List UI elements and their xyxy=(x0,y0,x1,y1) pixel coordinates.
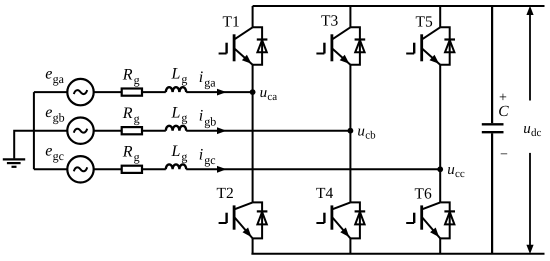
AC source e_ga label xyxy=(45,65,64,86)
resistor R_g row gb label xyxy=(122,105,140,125)
wire: bus to source gb xyxy=(34,130,67,132)
node u_ca label xyxy=(260,85,278,103)
transistor T4: emitter arrowhead xyxy=(340,228,349,238)
svg-text:u: u xyxy=(447,162,455,178)
transistor T1: gate bar xyxy=(225,43,227,54)
wire: diode branch jogs of T1 xyxy=(253,27,263,65)
u_dc label xyxy=(523,121,541,139)
transistor T1: emitter arrowhead xyxy=(242,55,252,64)
wire: resistor to inductor row ga xyxy=(142,91,166,93)
wire: resistor to inductor row gb xyxy=(142,130,166,132)
node u_cb junction dot xyxy=(348,128,354,134)
svg-text:T3: T3 xyxy=(321,13,338,30)
transistor T5: main bar xyxy=(420,34,423,61)
transistor T2: gate bar xyxy=(225,213,227,223)
wire: diode branch jogs of T6 xyxy=(440,202,450,238)
wire: phase leg 3 vertical segments xyxy=(439,6,441,254)
wire: diode branch jogs of T4 xyxy=(350,202,360,238)
current i_gb label xyxy=(199,108,216,129)
AC source e_ga sine symbol xyxy=(74,90,87,94)
svg-text:T4: T4 xyxy=(316,185,333,202)
wire: capacitor branch bottom xyxy=(491,133,493,253)
wire: diode branch jogs of T5 xyxy=(440,27,450,65)
anti-parallel diode of T2: triangle xyxy=(257,212,266,224)
transistor T5: emitter arrowhead xyxy=(430,55,440,64)
svg-text:i: i xyxy=(199,146,203,163)
anti-parallel diode of T1: cathode bar xyxy=(257,38,268,40)
svg-text:T2: T2 xyxy=(217,185,234,202)
resistor R_g row gc label xyxy=(122,144,140,164)
transistor T5: emitter lead xyxy=(422,48,441,65)
transistor T2: gate lead xyxy=(219,222,227,224)
transistor T6: emitter lead xyxy=(422,217,441,239)
svg-text:C: C xyxy=(498,103,509,120)
AC source e_ga circle xyxy=(67,79,93,105)
AC source e_gc circle xyxy=(67,156,93,182)
svg-text:ga: ga xyxy=(53,72,65,86)
u_dc measurement arrow upper segment xyxy=(526,6,533,101)
transistor T6: main bar xyxy=(420,205,423,229)
transistor T4: emitter lead xyxy=(332,217,351,239)
anti-parallel diode of T4: triangle xyxy=(355,212,364,224)
svg-text:gb: gb xyxy=(204,114,216,128)
resistor R_g row ga xyxy=(122,89,142,96)
svg-text:cc: cc xyxy=(455,168,465,180)
node u_cc junction dot xyxy=(437,166,443,172)
transistor T6: gate bar xyxy=(413,213,415,223)
current arrow i_gb xyxy=(217,127,227,134)
anti-parallel diode of T4: cathode bar xyxy=(355,210,366,212)
svg-text:g: g xyxy=(134,150,140,164)
svg-text:g: g xyxy=(181,111,187,125)
svg-text:gc: gc xyxy=(53,149,64,163)
svg-text:i: i xyxy=(199,69,203,86)
capacitor C plates xyxy=(482,124,504,132)
transistor T1: gate lead xyxy=(219,53,227,55)
svg-text:ca: ca xyxy=(267,91,277,103)
transistor T2: collector lead xyxy=(234,202,253,209)
resistor R_g row ga label xyxy=(122,67,140,87)
svg-text:g: g xyxy=(134,112,140,126)
svg-text:gb: gb xyxy=(53,111,65,125)
transistor T1: main bar xyxy=(233,34,236,61)
svg-text:T1: T1 xyxy=(223,13,240,30)
svg-text:e: e xyxy=(45,65,52,82)
svg-text:gc: gc xyxy=(204,153,215,167)
svg-text:g: g xyxy=(181,72,187,86)
anti-parallel diode of T5: triangle xyxy=(445,40,454,52)
current i_ga label xyxy=(199,69,216,90)
wire: bus to source ga xyxy=(34,91,67,93)
wire: source to resistor row gb xyxy=(94,130,122,132)
transistor T1: collector lead xyxy=(234,27,253,39)
wire: inductor to leg row gc xyxy=(186,168,440,170)
svg-text:u: u xyxy=(357,124,365,140)
transistor T4: main bar xyxy=(330,205,333,229)
AC source e_gc sine symbol xyxy=(74,167,87,171)
wire: source to resistor row gc xyxy=(94,168,122,170)
svg-text:dc: dc xyxy=(531,127,542,139)
node u_cc label xyxy=(447,162,465,180)
AC source e_gb label xyxy=(45,104,64,125)
transistor T3: emitter arrowhead xyxy=(340,55,350,64)
svg-text:R: R xyxy=(122,144,133,161)
svg-text:cb: cb xyxy=(365,130,376,142)
transistor T2: emitter arrowhead xyxy=(243,228,252,238)
anti-parallel diode of T2: cathode bar xyxy=(257,210,268,212)
svg-text:i: i xyxy=(199,108,203,125)
transistor T5: gate bar xyxy=(413,43,415,54)
ground xyxy=(3,159,25,166)
svg-text:u: u xyxy=(523,121,531,137)
svg-text:u: u xyxy=(260,85,268,101)
wire: inductor to leg row ga xyxy=(186,91,252,93)
anti-parallel diode of T1: triangle xyxy=(257,40,266,52)
transistor T3: gate lead xyxy=(316,53,324,55)
node u_cb label xyxy=(357,124,376,142)
svg-text:g: g xyxy=(134,73,140,87)
current arrow i_ga xyxy=(217,89,227,96)
inductor L_g row ga xyxy=(166,87,186,92)
svg-text:L: L xyxy=(171,143,181,160)
AC source e_gb sine symbol xyxy=(74,129,87,133)
transistor T6: emitter arrowhead xyxy=(430,228,439,238)
transistor T4: gate lead xyxy=(316,222,324,224)
transistor T1: emitter lead xyxy=(234,48,253,65)
anti-parallel diode of T3: cathode bar xyxy=(355,38,366,40)
svg-text:T6: T6 xyxy=(415,185,432,202)
transistor T6: gate lead xyxy=(406,222,414,224)
anti-parallel diode of T5: cathode bar xyxy=(444,38,455,40)
svg-text:R: R xyxy=(122,105,133,122)
svg-text:T5: T5 xyxy=(416,13,433,30)
wire: ground stub xyxy=(14,131,34,159)
wire: capacitor branch top xyxy=(491,6,493,123)
wire: diode branch jogs of T2 xyxy=(253,202,263,238)
transistor T4: gate bar xyxy=(323,213,325,223)
AC source e_gc label xyxy=(45,143,64,164)
transistor T2: emitter lead xyxy=(234,217,253,239)
inductor L_g row gc xyxy=(166,164,186,169)
wire: phase leg 2 vertical segments xyxy=(349,6,351,254)
transistor T3: collector lead xyxy=(332,27,351,39)
svg-text:−: − xyxy=(500,148,508,163)
svg-text:R: R xyxy=(122,67,133,84)
resistor R_g row gc xyxy=(122,166,142,173)
transistor T4: collector lead xyxy=(332,202,351,209)
wire: left neutral bus xyxy=(33,92,35,169)
svg-text:ga: ga xyxy=(204,76,216,90)
svg-text:L: L xyxy=(171,66,181,83)
wire: diode branch jogs of T3 xyxy=(350,27,360,65)
transistor T3: emitter lead xyxy=(332,48,351,65)
current i_gc label xyxy=(199,146,216,167)
anti-parallel diode of T6: cathode bar xyxy=(444,210,455,212)
wire: source to resistor row ga xyxy=(94,91,122,93)
anti-parallel diode of T3: triangle xyxy=(355,40,364,52)
anti-parallel diode of T6: triangle xyxy=(445,212,454,224)
wire: bottom DC rail xyxy=(251,253,544,255)
wire: phase leg 1 vertical segments xyxy=(252,6,254,254)
wire: bus to source gc xyxy=(34,168,67,170)
svg-text:e: e xyxy=(45,104,52,121)
wire: resistor to inductor row gc xyxy=(142,168,166,170)
resistor R_g row gb xyxy=(122,127,142,134)
transistor T5: collector lead xyxy=(422,27,441,39)
transistor T5: gate lead xyxy=(406,53,414,55)
wire: top DC rail xyxy=(253,5,545,7)
inductor L_g row gb xyxy=(166,126,186,131)
wire: inductor to leg row gb xyxy=(186,130,350,132)
inductor L_g row gb label xyxy=(171,104,188,124)
svg-text:g: g xyxy=(181,149,187,163)
svg-text:e: e xyxy=(45,143,52,160)
transistor T3: main bar xyxy=(330,34,333,61)
u_dc measurement arrow lower segment xyxy=(526,153,533,254)
transistor T3: gate bar xyxy=(323,43,325,54)
transistor T6: collector lead xyxy=(422,202,441,209)
node u_ca junction dot xyxy=(250,89,256,95)
svg-text:L: L xyxy=(171,104,181,121)
transistor T2: main bar xyxy=(233,205,236,229)
current arrow i_gc xyxy=(217,166,227,173)
AC source e_gb circle xyxy=(67,118,93,144)
inductor L_g row ga label xyxy=(171,66,188,86)
inductor L_g row gc label xyxy=(171,143,188,163)
